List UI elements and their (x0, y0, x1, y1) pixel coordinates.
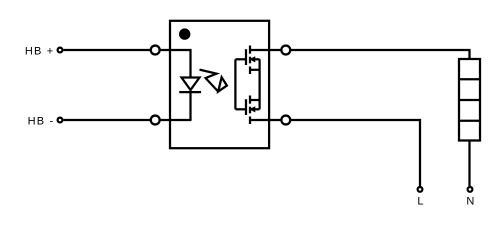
svg-text:HB +: HB + (25, 45, 55, 57)
svg-text:L: L (417, 195, 424, 207)
svg-text:N: N (466, 195, 475, 207)
svg-text:HB -: HB - (28, 115, 55, 127)
